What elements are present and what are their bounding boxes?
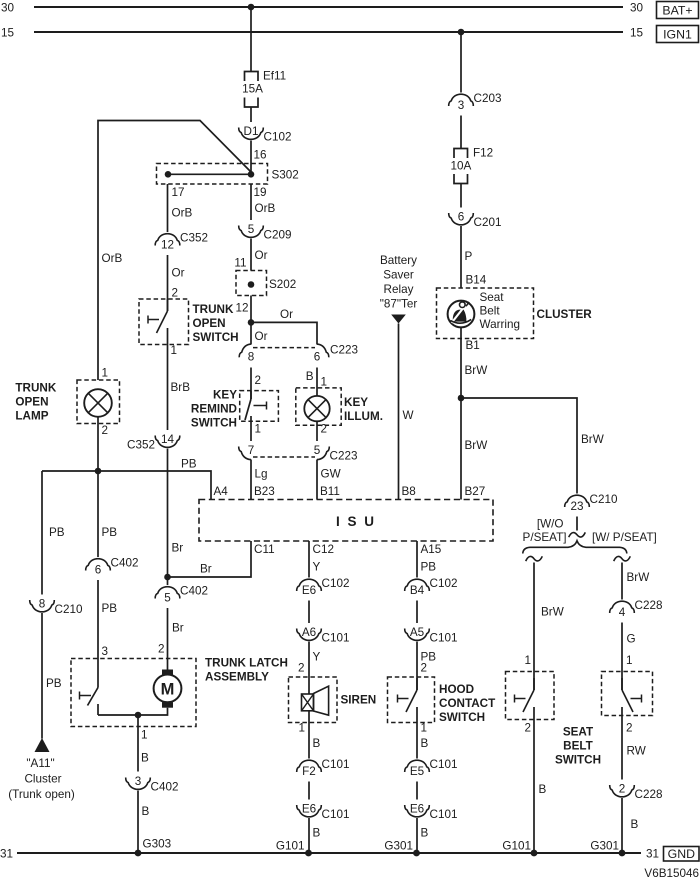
wire C223-6 to key illum (316, 368, 318, 397)
svg-text:E6: E6 (302, 803, 316, 816)
svg-text:C228: C228 (635, 788, 663, 801)
svg-text:C352: C352 (180, 232, 208, 245)
svg-text:C201: C201 (474, 216, 502, 229)
svg-text:[W/O: [W/O (537, 518, 564, 531)
svg-text:12: 12 (161, 239, 174, 252)
wire E5 to E6 (416, 782, 418, 800)
svg-text:1: 1 (626, 654, 633, 667)
svg-text:BrW: BrW (465, 364, 488, 377)
svg-text:Or: Or (280, 308, 293, 321)
svg-text:14: 14 (161, 433, 175, 446)
wire Or branch to C223-6 (251, 322, 317, 344)
wire lamp to PB junction (97, 417, 99, 471)
svg-text:1: 1 (524, 654, 531, 667)
connector 5 C402 (155, 587, 180, 599)
svg-text:BrW: BrW (581, 433, 604, 446)
svg-text:B8: B8 (402, 485, 416, 498)
svg-text:5: 5 (164, 592, 171, 605)
wire to ground G301 (416, 818, 418, 853)
trunk open lamp box (77, 380, 120, 424)
wire 7 to ISU B23 (250, 460, 252, 500)
svg-text:Or: Or (255, 249, 268, 262)
svg-text:BELT: BELT (563, 740, 594, 753)
svg-text:10A: 10A (451, 160, 472, 173)
svg-text:B: B (631, 818, 639, 831)
cluster box (437, 288, 534, 339)
svg-text:C101: C101 (430, 758, 458, 771)
svg-text:Br: Br (172, 622, 184, 635)
key illum box (296, 388, 341, 425)
svg-text:PB: PB (102, 602, 118, 615)
wire A5 to hood switch (416, 642, 418, 691)
svg-text:Y: Y (313, 561, 321, 574)
wire F12 to C201 (460, 184, 462, 208)
svg-text:"A11": "A11" (26, 757, 54, 770)
wire to trunk open switch (167, 255, 169, 311)
connector 8 C223 (239, 344, 251, 357)
svg-text:S302: S302 (272, 169, 299, 182)
svg-text:A5: A5 (410, 626, 425, 639)
svg-text:B: B (142, 805, 150, 818)
connector 12 C352 (155, 234, 180, 246)
svg-text:SWITCH: SWITCH (193, 331, 239, 344)
wire key illum to C223-5 (316, 421, 318, 441)
svg-text:1: 1 (321, 376, 328, 389)
svg-text:31: 31 (0, 848, 13, 861)
svg-text:1: 1 (171, 344, 178, 357)
svg-text:C402: C402 (180, 585, 208, 598)
svg-text:B27: B27 (465, 485, 486, 498)
svg-text:S202: S202 (269, 278, 296, 291)
svg-text:P: P (465, 250, 473, 263)
wire ISU C12 down (308, 541, 310, 578)
wire C209 to S202 (250, 239, 252, 271)
seat belt switch contact right (621, 678, 623, 690)
svg-text:15: 15 (630, 27, 644, 40)
svg-text:CONTACT: CONTACT (439, 697, 496, 710)
svg-text:C101: C101 (322, 632, 350, 645)
svg-text:Warring: Warring (480, 318, 520, 331)
wire 87 to ISU B8 (398, 324, 400, 500)
node on bus 15 (458, 29, 465, 36)
svg-text:3: 3 (458, 99, 465, 112)
svg-text:2: 2 (626, 722, 633, 735)
svg-text:B14: B14 (466, 274, 487, 287)
junction Br (164, 574, 171, 581)
svg-text:Or: Or (172, 267, 185, 280)
svg-text:SWITCH: SWITCH (555, 754, 601, 767)
wire fuse to D1 C102 (250, 107, 252, 122)
seat belt switch box (w/o p.seat) (506, 672, 555, 720)
wire right branch (621, 563, 623, 600)
wire BrW to C210-23 (461, 398, 577, 494)
seat belt warning indicator (448, 301, 475, 328)
option split tilde (569, 532, 586, 537)
svg-text:Lg: Lg (255, 468, 268, 481)
svg-text:F12: F12 (473, 147, 493, 160)
svg-text:BrW: BrW (541, 606, 564, 619)
svg-text:GW: GW (321, 468, 341, 481)
svg-text:LAMP: LAMP (15, 410, 48, 423)
connector 4 C228 (610, 601, 635, 613)
svg-text:C210: C210 (55, 603, 83, 616)
C223 dashed link (253, 347, 315, 349)
wire C201 to cluster (460, 226, 462, 288)
svg-text:B4: B4 (410, 584, 425, 597)
svg-text:7: 7 (248, 444, 255, 457)
connector 23 C210 (565, 495, 590, 507)
wire C210 to option split (576, 517, 578, 531)
svg-text:TRUNK LATCH: TRUNK LATCH (205, 657, 288, 670)
hood contact switch box (388, 677, 435, 723)
wire C352-14 down to Br junction (167, 449, 169, 578)
svg-text:PB: PB (181, 458, 197, 471)
latch internal wire (98, 708, 168, 715)
wire junction to C402-5 (167, 577, 169, 585)
svg-text:BrB: BrB (171, 381, 191, 394)
C223 dashed link 2 (253, 456, 315, 458)
svg-text:ASSEMBLY: ASSEMBLY (205, 671, 269, 684)
svg-text:C101: C101 (322, 808, 350, 821)
wire PB horizontal (42, 471, 211, 500)
svg-text:30: 30 (1, 2, 15, 15)
wire hook to trunk open lamp (98, 121, 251, 381)
trunk open lamp (84, 389, 112, 417)
svg-text:B: B (313, 827, 321, 840)
node on bus 30 (248, 4, 255, 11)
svg-text:SWITCH: SWITCH (439, 711, 485, 724)
svg-text:Cluster: Cluster (24, 773, 61, 786)
svg-text:OPEN: OPEN (193, 317, 226, 330)
siren box (289, 677, 338, 723)
splice S202 (236, 271, 267, 296)
wire PB left down (41, 471, 43, 595)
svg-text:TRUNK: TRUNK (193, 303, 234, 316)
option split brace (523, 541, 627, 554)
svg-text:Br: Br (172, 542, 184, 555)
svg-text:Or: Or (255, 330, 268, 343)
svg-text:C102: C102 (264, 131, 292, 144)
svg-text:1: 1 (421, 722, 428, 735)
svg-text:B: B (421, 737, 429, 750)
svg-text:REMIND: REMIND (191, 403, 237, 416)
connector 3 C203 (449, 94, 474, 106)
terminal triangle 87 (391, 315, 406, 324)
svg-text:F2: F2 (302, 765, 316, 778)
svg-text:"87"Ter: "87"Ter (380, 298, 418, 311)
svg-text:PB: PB (49, 526, 65, 539)
svg-text:A15: A15 (421, 543, 442, 556)
wire PB junction down (97, 471, 99, 557)
svg-text:C210: C210 (590, 493, 618, 506)
wire S202 to junction (250, 296, 252, 345)
svg-text:16: 16 (254, 149, 267, 162)
svg-text:3: 3 (135, 775, 142, 788)
svg-text:C102: C102 (322, 577, 350, 590)
svg-text:Br: Br (200, 563, 212, 576)
junction Or branch (248, 319, 255, 326)
svg-text:C223: C223 (330, 450, 358, 463)
svg-text:5: 5 (248, 223, 255, 236)
wire ISU A15 down (416, 541, 418, 578)
svg-text:C101: C101 (322, 758, 350, 771)
wire cluster to BrW junction (460, 300, 462, 302)
wire left branch (533, 563, 535, 691)
svg-text:GND: GND (668, 847, 695, 861)
svg-text:C12: C12 (313, 543, 334, 556)
svg-text:G301: G301 (384, 840, 413, 853)
trunk open switch box (139, 299, 189, 345)
wire C102 to S302 (250, 141, 252, 175)
svg-text:B: B (539, 783, 547, 796)
splice S302 (157, 164, 268, 185)
svg-text:(Trunk open): (Trunk open) (8, 788, 75, 801)
svg-text:M: M (161, 681, 175, 699)
connector 6 C402 (86, 559, 111, 571)
svg-text:OrB: OrB (172, 207, 193, 220)
hood switch contact (416, 678, 418, 690)
svg-text:HOOD: HOOD (439, 683, 474, 696)
svg-text:6: 6 (458, 211, 465, 224)
wire C210-8 to A11 cluster (41, 613, 43, 739)
svg-text:C11: C11 (254, 543, 275, 556)
svg-text:1: 1 (298, 722, 305, 735)
svg-text:ILLUM.: ILLUM. (344, 410, 383, 423)
wire S302-19 down (250, 184, 252, 220)
wire to ground G301 right (621, 798, 623, 853)
svg-text:B: B (313, 737, 321, 750)
svg-text:PB: PB (102, 526, 118, 539)
terminal box BAT+ (657, 2, 699, 19)
svg-text:E6: E6 (410, 803, 424, 816)
svg-text:C402: C402 (151, 781, 179, 794)
junction BrW (458, 395, 465, 402)
junction latch output (135, 712, 142, 719)
svg-text:1: 1 (255, 423, 262, 436)
siren symbol (302, 694, 314, 711)
svg-text:2: 2 (158, 643, 165, 656)
bus 30 (BAT+) (34, 6, 623, 8)
svg-text:2: 2 (421, 662, 428, 675)
svg-text:Seat: Seat (480, 291, 505, 304)
wire 5 to ISU B11 (316, 460, 318, 500)
terminal triangle A11 (35, 738, 50, 752)
wire to trunk latch motor (167, 608, 169, 670)
key remind switch box (240, 391, 279, 422)
svg-text:C203: C203 (474, 92, 502, 105)
bus 15 (IGN1) (34, 31, 623, 33)
svg-text:BrW: BrW (627, 571, 650, 584)
svg-text:OrB: OrB (255, 202, 276, 215)
svg-text:23: 23 (570, 500, 583, 513)
svg-text:A6: A6 (302, 626, 316, 639)
svg-text:D1: D1 (244, 125, 259, 138)
ISU box (199, 500, 493, 542)
wire BrW to ISU B27 (460, 398, 462, 500)
svg-text:Y: Y (313, 651, 321, 664)
svg-text:C228: C228 (635, 599, 663, 612)
svg-text:17: 17 (172, 186, 185, 199)
connector 6 C223 (317, 344, 329, 357)
connector F2 C101 (297, 760, 322, 772)
svg-text:B: B (421, 827, 429, 840)
svg-text:SIREN: SIREN (341, 694, 377, 707)
svg-text:B11: B11 (320, 485, 340, 498)
latch motor M (162, 670, 173, 675)
left branch tilde (526, 556, 543, 561)
svg-text:C402: C402 (111, 557, 139, 570)
wire C228-4 to switch (621, 623, 623, 691)
svg-text:C101: C101 (430, 632, 458, 645)
svg-text:B: B (141, 752, 149, 765)
terminal box IGN1 (657, 26, 699, 43)
svg-text:Relay: Relay (384, 283, 414, 296)
wire to ground G101 (308, 818, 310, 853)
seat belt switch contact left (533, 678, 535, 690)
svg-text:6: 6 (314, 351, 321, 364)
wire to A5 (416, 601, 418, 624)
svg-text:OPEN: OPEN (15, 396, 48, 409)
svg-text:KEY: KEY (344, 396, 368, 409)
svg-text:15A: 15A (242, 83, 263, 96)
wire to ground G303 (137, 791, 139, 854)
svg-text:P/SEAT]: P/SEAT] (523, 531, 567, 544)
svg-text:12: 12 (235, 302, 248, 315)
svg-text:I S U: I S U (336, 514, 376, 529)
svg-text:B1: B1 (466, 339, 480, 352)
connector B4 C102 (405, 579, 430, 591)
svg-text:CLUSTER: CLUSTER (537, 308, 593, 321)
svg-text:Ef11: Ef11 (263, 70, 286, 83)
fuse Ef11 15A (245, 72, 259, 82)
wire siren to F2 (308, 711, 310, 759)
svg-text:RW: RW (627, 745, 646, 758)
right branch tilde (614, 556, 631, 561)
svg-text:31: 31 (646, 848, 659, 861)
svg-text:OrB: OrB (102, 252, 123, 265)
connector E6 C102 (297, 579, 322, 591)
wire S302-17 down (167, 184, 169, 232)
wire A6 to siren (308, 642, 310, 695)
svg-text:C223: C223 (330, 344, 358, 357)
svg-text:2: 2 (255, 374, 262, 387)
svg-text:2: 2 (524, 722, 531, 735)
bus 31 (GND) (17, 852, 641, 854)
svg-text:C209: C209 (264, 229, 292, 242)
key illum lamp (304, 396, 329, 421)
svg-text:G101: G101 (502, 840, 531, 853)
svg-text:G301: G301 (590, 840, 619, 853)
svg-text:1: 1 (102, 367, 109, 380)
svg-text:BAT+: BAT+ (662, 3, 692, 17)
terminal box GND (664, 847, 700, 862)
svg-text:2: 2 (619, 783, 626, 796)
svg-text:3: 3 (102, 645, 109, 658)
wire bus30 to fuse Ef11 (250, 7, 252, 72)
trunk latch assembly box (71, 659, 196, 727)
svg-text:2: 2 (172, 287, 179, 300)
svg-text:IGN1: IGN1 (663, 27, 692, 41)
svg-text:5: 5 (314, 444, 321, 457)
trunk open switch contact (167, 299, 169, 311)
svg-text:KEY: KEY (213, 389, 237, 402)
svg-text:2: 2 (321, 423, 328, 436)
svg-text:E6: E6 (302, 584, 316, 597)
svg-text:[W/ P/SEAT]: [W/ P/SEAT] (592, 531, 657, 544)
svg-text:8: 8 (248, 351, 255, 364)
svg-text:Saver: Saver (383, 269, 414, 282)
svg-text:PB: PB (421, 561, 437, 574)
svg-text:6: 6 (95, 564, 102, 577)
svg-text:8: 8 (39, 598, 46, 611)
wire C223-8 to key remind switch (250, 368, 252, 400)
svg-text:W: W (403, 409, 414, 422)
svg-text:V6B15046: V6B15046 (644, 867, 699, 880)
seat belt switch box (w/ p.seat) (602, 672, 653, 716)
wire Br to ISU C11 (168, 541, 252, 577)
svg-text:B23: B23 (254, 485, 275, 498)
svg-text:G101: G101 (276, 840, 305, 853)
svg-text:BrW: BrW (465, 439, 488, 452)
latch switch contact (97, 659, 99, 688)
svg-text:4: 4 (619, 606, 626, 619)
key remind switch contact (250, 391, 252, 399)
connector E5 C101 (405, 760, 430, 772)
fuse F12 10A (454, 149, 468, 159)
svg-text:30: 30 (630, 2, 644, 15)
svg-text:2: 2 (102, 424, 109, 437)
svg-text:11: 11 (234, 257, 246, 270)
wire C203 to fuse F12 (460, 116, 462, 149)
svg-text:C102: C102 (430, 577, 458, 590)
svg-text:A4: A4 (214, 485, 229, 498)
svg-text:PB: PB (46, 677, 62, 690)
svg-text:Belt: Belt (480, 305, 501, 318)
svg-text:19: 19 (254, 186, 267, 199)
junction PB (95, 468, 102, 475)
svg-text:B: B (306, 370, 314, 383)
svg-text:C101: C101 (430, 808, 458, 821)
svg-text:SWITCH: SWITCH (191, 417, 237, 430)
svg-text:E5: E5 (410, 765, 425, 778)
svg-text:G: G (627, 633, 636, 646)
wire latch pin1 to G303 (137, 715, 139, 772)
svg-text:1: 1 (141, 729, 148, 742)
svg-text:G303: G303 (143, 838, 172, 851)
svg-text:C352: C352 (127, 439, 155, 452)
svg-text:2: 2 (298, 662, 305, 675)
svg-text:Battery: Battery (380, 254, 417, 267)
svg-text:TRUNK: TRUNK (15, 382, 56, 395)
wire C402-6 to latch switch (97, 580, 99, 659)
wire F2 to E6 (308, 782, 310, 800)
wire bus15 to C203 (460, 32, 462, 93)
svg-text:15: 15 (1, 27, 15, 40)
svg-text:SEAT: SEAT (563, 726, 594, 739)
wire to A6 (308, 601, 310, 624)
